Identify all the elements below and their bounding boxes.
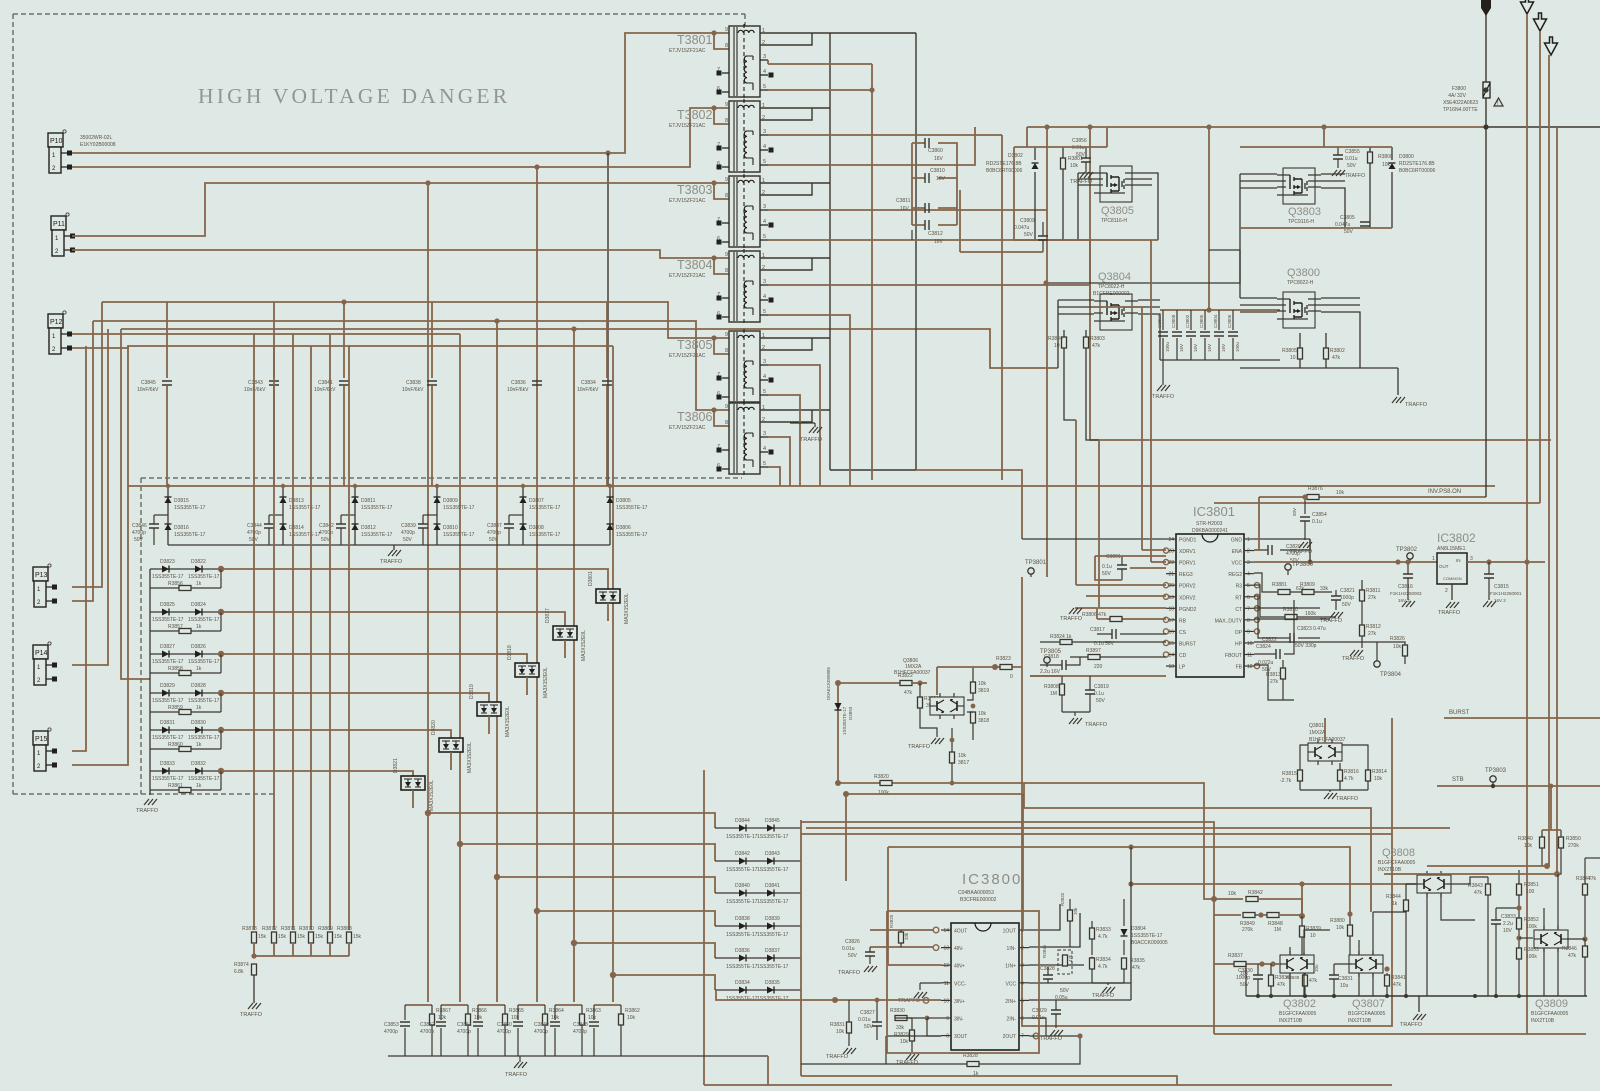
junction	[521, 484, 525, 488]
svg-text:47k: 47k	[1588, 876, 1597, 882]
resistor R3862	[619, 1014, 624, 1025]
wire T3806 pin3 out	[768, 437, 790, 486]
wire q3807 tops	[1359, 912, 1373, 955]
svg-text:TRAFFO: TRAFFO	[1152, 394, 1175, 400]
wire T3803 pin3 out	[768, 209, 1047, 211]
wire pack tops	[1290, 930, 1330, 955]
svg-text:P14: P14	[35, 650, 48, 657]
wire	[273, 943, 275, 956]
resistor R3836	[1269, 975, 1274, 986]
wire D3820 down	[450, 752, 452, 770]
svg-text:INX2T10B: INX2T10B	[1531, 1018, 1555, 1024]
wire long vertical x704	[703, 770, 705, 1085]
junction	[711, 407, 716, 412]
pad	[717, 165, 722, 170]
svg-text:Q3809: Q3809	[1535, 998, 1568, 1010]
svg-text:4.7k: 4.7k	[1344, 776, 1354, 782]
junction	[1494, 994, 1498, 998]
svg-text:C3823 0.47u: C3823 0.47u	[1297, 626, 1326, 632]
svg-text:INX2T10B: INX2T10B	[1348, 1018, 1372, 1024]
wire pin4	[1254, 573, 1278, 592]
wire gnd stub	[1329, 790, 1331, 792]
ground	[1330, 612, 1343, 618]
pad	[769, 148, 774, 153]
svg-text:D3817: D3817	[545, 608, 551, 623]
wire pin8 3OUT loop	[927, 1018, 941, 1036]
wire R3825	[900, 930, 902, 947]
svg-text:ETJV15ZF21AC: ETJV15ZF21AC	[669, 198, 706, 204]
svg-text:TRAFFO: TRAFFO	[1040, 1036, 1063, 1042]
resistor R3816	[1338, 770, 1343, 781]
ground	[144, 799, 157, 805]
capacitor C3801	[1117, 565, 1127, 569]
wire to diode cluster D3805	[607, 153, 609, 486]
capacitor C3804	[1214, 332, 1224, 336]
svg-text:1SS355TE-17: 1SS355TE-17	[726, 867, 758, 873]
resistor R3834	[1090, 958, 1095, 969]
svg-text:T3804: T3804	[677, 258, 712, 272]
capacitor C3839	[418, 524, 428, 528]
svg-text:R3841: R3841	[1391, 975, 1406, 981]
svg-text:16V: 16V	[1179, 344, 1184, 352]
junction	[281, 484, 285, 488]
wire C3809 leads	[1042, 222, 1044, 252]
junction	[494, 318, 499, 323]
wire column C3834 lower	[606, 386, 608, 486]
wire R3805/R3802 leads	[1300, 333, 1326, 368]
wire row D3831	[150, 729, 221, 731]
pin 2 IC3800	[1019, 947, 1029, 949]
wire R3804/R3803 leads	[1064, 330, 1099, 440]
svg-text:D3805: D3805	[616, 498, 631, 504]
svg-text:3: 3	[763, 431, 766, 437]
svg-text:47k: 47k	[1332, 355, 1341, 361]
svg-text:D3806: D3806	[616, 525, 631, 531]
wire long bus y486	[128, 485, 1495, 487]
svg-text:33k: 33k	[896, 1025, 905, 1031]
wire bus y240	[1014, 239, 1158, 241]
wire q3808 right	[1447, 877, 1488, 884]
svg-text:T3805: T3805	[677, 338, 712, 352]
svg-text:1k: 1k	[973, 1071, 979, 1077]
svg-text:15k: 15k	[278, 934, 287, 940]
svg-text:BURST: BURST	[1179, 641, 1196, 647]
wire C3804	[1218, 310, 1220, 360]
svg-text:C3854: C3854	[1312, 512, 1327, 518]
svg-text:9: 9	[946, 1016, 949, 1022]
ground	[1413, 1014, 1426, 1020]
svg-text:9: 9	[725, 332, 728, 338]
svg-text:Q3808: Q3808	[1382, 847, 1415, 859]
svg-text:C3843: C3843	[248, 380, 263, 386]
svg-text:47k: 47k	[1309, 978, 1318, 984]
wire pack bottoms	[1290, 973, 1373, 996]
svg-text:T3802: T3802	[677, 108, 712, 122]
svg-text:50V: 50V	[1096, 698, 1106, 704]
svg-text:B0BC6RT00006: B0BC6RT00006	[1399, 168, 1436, 174]
junction	[950, 781, 955, 786]
pin 11 IC3800	[941, 982, 951, 984]
svg-text:D3842: D3842	[735, 851, 750, 857]
junction	[1299, 881, 1304, 886]
svg-text:3: 3	[763, 129, 766, 135]
pin 10 IC3801	[1244, 642, 1254, 644]
wire INV.PS8.ON bus	[1259, 496, 1486, 498]
wire C3805	[1204, 310, 1206, 360]
wire T3801 pin3 out	[768, 60, 872, 64]
ground	[248, 1003, 261, 1009]
resistor R3866	[466, 1014, 471, 1025]
pin 2 IC3801	[1244, 550, 1254, 552]
junction	[1128, 844, 1133, 849]
wire R3857	[150, 630, 221, 632]
junction	[1043, 280, 1048, 285]
wire pins 20/19	[1076, 585, 1166, 596]
wire lp	[1030, 675, 1062, 677]
resistor R3859	[179, 710, 191, 715]
svg-text:100k: 100k	[878, 790, 889, 796]
svg-text:TRAFFO: TRAFFO	[380, 559, 403, 565]
resistor R3828	[967, 1062, 979, 1067]
capacitor C3843	[269, 381, 279, 385]
wire PGND2 riser	[1099, 440, 1166, 608]
svg-text:C3838: C3838	[406, 380, 421, 386]
junction	[925, 1016, 930, 1021]
wire C3830	[1257, 964, 1259, 996]
zener D3813	[280, 497, 287, 503]
connector P12	[48, 311, 72, 354]
resistor R3897	[1088, 655, 1100, 660]
svg-text:50V: 50V	[1292, 508, 1297, 516]
ground	[1392, 397, 1405, 403]
wire tops to STB	[1542, 786, 1561, 830]
svg-text:C3851: C3851	[457, 1022, 472, 1028]
svg-text:AN8L15ME1: AN8L15ME1	[1437, 546, 1466, 552]
wire pin8 3OUT	[886, 1035, 941, 1037]
svg-text:IC3800: IC3800	[962, 871, 1022, 888]
svg-text:12: 12	[943, 963, 949, 969]
connector P15	[33, 728, 57, 771]
dual diode D3820	[439, 738, 463, 752]
svg-text:23: 23	[1168, 549, 1174, 555]
wire pin22	[1130, 567, 1166, 569]
wire T3806 pin1	[760, 409, 830, 411]
connector P14	[33, 642, 57, 685]
svg-text:B1GFCFAA0005: B1GFCFAA0005	[1348, 1011, 1385, 1017]
pad	[717, 146, 722, 151]
svg-text:10k: 10k	[978, 711, 987, 717]
junction	[1259, 961, 1264, 966]
pin 23 IC3801	[1166, 550, 1176, 552]
wire rows left bus	[149, 569, 151, 795]
wire C3828	[1047, 967, 1049, 983]
svg-text:C3815: C3815	[1494, 584, 1509, 590]
capacitor C3829	[1051, 1010, 1061, 1014]
capacitor C3836	[532, 381, 542, 385]
svg-text:10u: 10u	[1340, 983, 1349, 989]
zener D3807	[520, 497, 527, 503]
wire column C3834	[606, 302, 608, 378]
svg-text:16V: 16V	[934, 156, 944, 162]
svg-text:14: 14	[943, 928, 949, 934]
resistor R3804	[1062, 337, 1067, 348]
svg-text:270k: 270k	[1242, 927, 1253, 933]
svg-text:TPC8022-H: TPC8022-H	[1287, 280, 1314, 286]
wire Q3805 right	[1138, 173, 1158, 240]
svg-text:R3839: R3839	[1306, 926, 1321, 932]
wire tp3801 stub	[1030, 574, 1032, 577]
pad	[717, 376, 722, 381]
junction	[218, 609, 224, 615]
diode D3839	[767, 923, 774, 930]
svg-text:33k: 33k	[1320, 586, 1329, 592]
pin 13 IC3801	[1166, 665, 1176, 667]
svg-text:50V 330p: 50V 330p	[1295, 643, 1317, 649]
svg-text:5: 5	[763, 309, 766, 315]
svg-text:2IN+: 2IN+	[1005, 999, 1016, 1005]
junction	[457, 841, 463, 847]
wire feed to 1OUT	[846, 794, 1023, 930]
wire sense riser	[273, 346, 275, 930]
resistor R3869	[328, 932, 333, 943]
svg-text:D3813: D3813	[289, 498, 304, 504]
svg-text:D3812: D3812	[361, 525, 376, 531]
pin 11 IC3801	[1244, 654, 1254, 656]
svg-text:50V: 50V	[1342, 602, 1352, 608]
svg-text:C3837: C3837	[487, 523, 502, 529]
wire C3806	[1232, 310, 1234, 360]
wire C3854 drop	[1304, 497, 1306, 514]
wire T3802 pin3 out	[768, 134, 1002, 136]
wire C3852 bracket	[441, 1004, 468, 1006]
svg-text:1SS355TE-17: 1SS355TE-17	[188, 574, 220, 580]
resistor R3819	[971, 682, 976, 693]
svg-text:R3840: R3840	[1518, 836, 1533, 842]
mosfet Q3803	[1277, 168, 1321, 204]
svg-text:MAX..DUTY: MAX..DUTY	[1215, 618, 1243, 624]
pad	[769, 73, 774, 78]
wire feed C	[801, 833, 1392, 835]
svg-text:D3845: D3845	[765, 818, 780, 824]
svg-text:R3858: R3858	[168, 666, 183, 672]
wire C3849 leads	[554, 1005, 556, 1056]
diode D3829	[162, 690, 169, 697]
svg-text:12: 12	[1247, 664, 1253, 670]
resistor R3840	[1540, 837, 1545, 848]
wire matrix row D3840	[715, 892, 801, 894]
wire C3818 link	[1040, 657, 1080, 665]
ground	[1102, 987, 1115, 993]
svg-text:1k: 1k	[1392, 901, 1398, 907]
wire y127 bus	[1027, 126, 1486, 128]
svg-text:R3815: R3815	[1282, 771, 1297, 777]
junction	[835, 780, 841, 786]
svg-text:1SS355TE-17: 1SS355TE-17	[757, 899, 789, 905]
wire C3837	[508, 515, 510, 545]
svg-text:TP3805: TP3805	[1040, 649, 1062, 655]
wire x1302 drop	[1301, 884, 1303, 916]
junction	[353, 484, 357, 488]
wire RT row	[1254, 585, 1336, 617]
svg-text:10k: 10k	[588, 1015, 597, 1021]
svg-text:R3802: R3802	[1330, 348, 1345, 354]
wire row bracket	[220, 730, 222, 749]
wire cap bank bottom bus	[1160, 359, 1280, 361]
svg-text:D3814: D3814	[289, 525, 304, 531]
svg-text:CT: CT	[1235, 607, 1242, 613]
diode D3845	[767, 825, 774, 832]
junction	[605, 150, 610, 155]
wire C3833	[1495, 908, 1497, 996]
diode D3844	[739, 825, 746, 832]
capacitor C3826	[865, 952, 875, 956]
capacitor C3819	[1085, 690, 1095, 694]
wire pin5 2IN+	[1029, 999, 1131, 1001]
capacitor C3837	[504, 524, 514, 528]
junction	[992, 664, 998, 670]
junction	[1303, 994, 1307, 998]
wire R3858	[150, 672, 221, 674]
zener D3800	[1389, 163, 1396, 169]
svg-text:ETJV15ZF21AC: ETJV15ZF21AC	[669, 123, 706, 129]
resistor R3813	[1281, 668, 1286, 679]
svg-text:R3851: R3851	[1524, 882, 1539, 888]
svg-text:C3853: C3853	[384, 1022, 399, 1028]
svg-text:TRAFFO: TRAFFO	[908, 744, 931, 750]
svg-text:7: 7	[1021, 1034, 1024, 1040]
svg-text:C3819: C3819	[1094, 684, 1109, 690]
svg-text:INX2T10B: INX2T10B	[1279, 1018, 1303, 1024]
svg-text:D3830: D3830	[191, 720, 206, 726]
dual diode D3819	[477, 702, 501, 716]
wire T3806 pin2 bracket	[760, 410, 812, 422]
wire to matrix row D3836	[574, 943, 715, 958]
svg-text:8: 8	[725, 268, 728, 274]
wire local rail x1014	[1013, 147, 1015, 240]
capacitor C3824	[1276, 649, 1280, 659]
svg-text:16V: 16V	[934, 239, 944, 245]
wire row D3823	[150, 568, 221, 570]
resistor R3811	[1360, 590, 1365, 601]
svg-text:R3873: R3873	[242, 926, 257, 932]
mosfet Q3804	[1094, 294, 1138, 330]
wire C3808	[1176, 310, 1178, 360]
svg-text:TRAFFO: TRAFFO	[1085, 722, 1108, 728]
svg-text:18: 18	[1168, 606, 1174, 612]
capacitor C3811	[925, 203, 929, 213]
svg-text:C3821: C3821	[1340, 588, 1355, 594]
svg-text:ETJV15ZF21AC: ETJV15ZF21AC	[669, 353, 706, 359]
wire matrix row D3844	[715, 827, 801, 829]
wire T3804 pin3 out	[768, 284, 1090, 286]
pin 5 IC3801	[1244, 584, 1254, 586]
svg-text:13: 13	[943, 946, 949, 952]
wire R3833	[1091, 921, 1093, 955]
svg-text:TP3803: TP3803	[1485, 768, 1507, 774]
junction	[251, 953, 256, 958]
svg-text:D3810: D3810	[443, 525, 458, 531]
pin 24 IC3801	[1166, 538, 1176, 540]
svg-text:6: 6	[1247, 595, 1250, 601]
svg-text:27k: 27k	[1270, 679, 1279, 685]
svg-text:Q3805: Q3805	[1101, 205, 1134, 217]
svg-text:R3880: R3880	[1330, 918, 1345, 924]
svg-text:LP: LP	[1179, 665, 1186, 671]
capacitor C3851	[473, 1022, 483, 1026]
svg-text:R3835: R3835	[1130, 958, 1145, 964]
wire BURST line	[1444, 717, 1600, 719]
svg-text:15k: 15k	[334, 934, 343, 940]
pin 10 IC3800	[941, 999, 951, 1001]
svg-text:50V: 50V	[1024, 232, 1034, 238]
svg-text:10k: 10k	[1374, 776, 1383, 782]
wire base row Q3802	[1214, 963, 1280, 965]
diode D3828	[195, 690, 202, 697]
svg-text:1SS355TE-17: 1SS355TE-17	[152, 659, 184, 665]
wire R3808/C3819	[1062, 676, 1090, 712]
junction	[218, 768, 224, 774]
resistor R3843	[1486, 884, 1491, 895]
svg-text:MA3X152E0L: MA3X152E0L	[543, 667, 549, 698]
ground	[1446, 602, 1459, 608]
wire C3831	[1333, 964, 1335, 996]
svg-text:D3820: D3820	[431, 720, 437, 735]
wire secondary return bus	[829, 33, 831, 470]
ground	[1050, 1030, 1063, 1036]
wire R3841	[1386, 973, 1388, 996]
svg-text:8: 8	[725, 420, 728, 426]
zener D3810	[434, 524, 441, 530]
zener D3816	[165, 524, 172, 530]
resistor R3874	[252, 964, 257, 975]
capacitor C3822	[1290, 633, 1294, 643]
junction	[494, 874, 500, 880]
wire R3853 low	[1518, 959, 1520, 996]
svg-text:D3828: D3828	[191, 683, 206, 689]
wire Q3803 left bracket	[1046, 174, 1277, 283]
svg-text:47k: 47k	[1068, 954, 1073, 962]
wire bus to T3805	[102, 302, 729, 338]
wire bus to T3806	[93, 321, 729, 410]
svg-text:4700p: 4700p	[487, 530, 501, 536]
transformer T3805	[717, 329, 768, 404]
svg-text:R3803: R3803	[1090, 336, 1105, 342]
capacitor C3831	[1329, 975, 1339, 979]
svg-text:10: 10	[1247, 641, 1253, 647]
junction	[608, 484, 612, 488]
svg-text:8: 8	[946, 1034, 949, 1040]
wire pin9 3IN-	[927, 1017, 941, 1019]
wire riser P14.1	[72, 329, 108, 665]
wire gnd/ena to vcc? link	[1309, 539, 1311, 562]
svg-text:TP3801: TP3801	[1025, 560, 1047, 566]
junction	[711, 180, 716, 185]
junction	[869, 87, 874, 92]
svg-text:TRAFFO: TRAFFO	[1070, 179, 1093, 185]
transformer T3806	[717, 401, 768, 476]
wire fuse rail	[1485, 0, 1487, 497]
wire T3801 pin5 to x872	[768, 89, 872, 91]
wire feed A	[801, 822, 1214, 899]
svg-text:MA3X152E0L: MA3X152E0L	[467, 742, 473, 773]
svg-text:10k: 10k	[1336, 925, 1345, 931]
svg-text:11: 11	[944, 981, 949, 987]
wire T3801 pin8 bracket	[714, 33, 729, 49]
svg-text:10k: 10k	[900, 1039, 909, 1045]
junction	[218, 566, 224, 572]
pin 14 IC3801	[1166, 654, 1176, 656]
wire row out to pack	[221, 612, 565, 626]
